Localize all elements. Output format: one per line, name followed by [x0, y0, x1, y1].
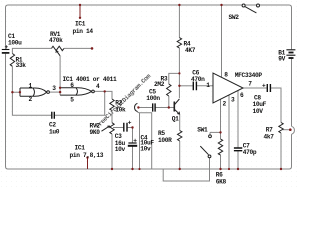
wire C3 to C4 node: [127, 127, 132, 129]
switch SW1 lever: [200, 146, 208, 155]
capacitor C5 100n plates: [153, 103, 155, 111]
wire R1 top lead to RV1: [12, 48, 51, 53]
transistor Q1 base bar: [173, 102, 175, 112]
svg-text:SW2: SW2: [229, 14, 240, 21]
svg-text:pin 7,8,13: pin 7,8,13: [70, 152, 104, 159]
wire right rail upper (to battery): [289, 5, 292, 49]
node rail R7: [280, 168, 282, 170]
transistor Q1 collector lead: [175, 99, 180, 105]
wire R7 tap to jack tip: [283, 129, 291, 131]
svg-text:4k7: 4k7: [264, 133, 275, 140]
wire op-amp pin7 output: [243, 87, 267, 89]
capacitor C6 470n plates: [193, 82, 196, 91]
wire C8 to R7: [271, 88, 281, 123]
node gate2 pin3: [59, 91, 61, 93]
svg-text:MFC3340P: MFC3340P: [235, 72, 263, 79]
wire op-amp pin3 down: [228, 95, 230, 169]
wire C5 to Q1 base: [156, 107, 175, 109]
wire jack sleeve to ground: [137, 111, 151, 169]
svg-text:R7: R7: [266, 126, 273, 133]
wire sleeve branch down: [139, 113, 141, 169]
svg-text:100n: 100n: [146, 95, 160, 102]
switch SW2 contacts: [242, 4, 245, 7]
node rail pin3: [228, 168, 230, 170]
svg-text:10v: 10v: [140, 146, 151, 153]
junction dots (maroon): [11, 4, 291, 170]
wire right rail mid (battery to jack bump): [291, 59, 293, 127]
node RV1 end: [91, 47, 94, 50]
battery B1 plates: [286, 49, 295, 51]
wire R4 line top: [178, 5, 180, 38]
svg-text:100R: 100R: [158, 137, 172, 144]
svg-text:9K0: 9K0: [90, 129, 101, 136]
switch SW2 lever: [245, 7, 257, 13]
node stub bottom: [86, 156, 88, 158]
wire Q1 emitter to R5: [179, 114, 181, 131]
wire R5 to rail: [179, 141, 181, 169]
watermark FreeCircuitDiagram.Com: [94, 72, 152, 129]
potentiometer RV1 470k: [52, 46, 64, 50]
svg-text:R6: R6: [216, 171, 223, 178]
wire R3 top to R4 line: [169, 73, 180, 84]
node C3/C4: [131, 126, 133, 128]
wire C4 node down: [132, 128, 134, 143]
svg-text:1u0: 1u0: [49, 128, 60, 135]
wire left rail upper: [6, 5, 9, 49]
node pin4/C2: [104, 90, 106, 92]
wire SW1 top stub: [209, 132, 211, 135]
capacitor C3 16u plates: [124, 123, 127, 132]
wire jack tip to C5: [138, 107, 152, 109]
resistor R6 6K8: [218, 139, 222, 155]
capacitor C8 10uF plates: [267, 84, 270, 92]
svg-text:10V: 10V: [253, 108, 264, 115]
svg-text:pin 14: pin 14: [73, 28, 94, 35]
wire C2 feedback left leg: [12, 92, 51, 115]
wire R6 to rail: [220, 155, 222, 169]
node pin14 top: [79, 4, 81, 6]
wire SW1 top to pin2 line: [210, 131, 221, 133]
svg-text:4K7: 4K7: [185, 47, 196, 54]
resistor R5 100R: [178, 131, 182, 142]
node rail pin8: [220, 4, 222, 6]
svg-text:Q1: Q1: [172, 116, 179, 123]
switch SW1 contacts: [209, 135, 212, 138]
wire RV2 tap to C3: [113, 127, 123, 129]
node R3/base: [168, 106, 170, 108]
left jack (probe input) arc: [135, 103, 138, 111]
wire RV1 right end: [64, 47, 92, 49]
resistor R1 33k: [10, 54, 14, 67]
wire bottom rail: [6, 167, 292, 170]
wire RV2 to bottom rail: [111, 134, 113, 169]
wire R4 to collector: [178, 48, 180, 98]
wire C2 to pin4 node: [55, 91, 105, 115]
node pin14 bottom: [79, 17, 81, 19]
Q1 emitter arrow: [177, 112, 180, 115]
wire R7 to rail: [280, 133, 282, 169]
svg-text:6K8: 6K8: [216, 178, 227, 185]
wires (gray): [6, 5, 295, 181]
node rail R6: [219, 168, 221, 170]
wire op-amp pin2 down: [220, 99, 222, 139]
svg-text:IC1: IC1: [75, 145, 86, 152]
svg-text:10v: 10v: [115, 146, 126, 153]
node rail RV2: [111, 168, 113, 170]
wire op-amp pin6 down: [237, 91, 239, 148]
maroon pin stubs: [80, 5, 88, 169]
capacitor C4 10uF plates: [128, 142, 136, 144]
op-amp U2 MFC3340P triangle: [213, 73, 243, 103]
svg-text:IC1: IC1: [75, 21, 86, 28]
capacitor C7 470p plates: [234, 148, 242, 151]
node SW1/pin2: [219, 131, 221, 133]
svg-text:33k: 33k: [16, 62, 27, 69]
wire R3 bottom to base node: [168, 96, 170, 108]
node gate1 input bar: [19, 91, 21, 93]
wire left rail lower: [5, 54, 7, 167]
node earphone tip: [289, 128, 292, 131]
capacitor plates (black): [2, 50, 296, 151]
svg-text:100u: 100u: [8, 40, 22, 47]
resistor R4 4K7: [177, 38, 181, 48]
node jack tip: [137, 106, 139, 108]
svg-text:SW1: SW1: [197, 126, 208, 133]
node rail C4: [131, 168, 133, 170]
wire collector node to C6: [179, 85, 192, 87]
stub IC1 pin 14: [79, 5, 81, 18]
node rail sleeve branch: [138, 168, 140, 170]
svg-text:10k: 10k: [115, 106, 126, 113]
wire op-amp pin8: [221, 5, 223, 77]
wire R2 to RV2: [111, 111, 113, 123]
RV1 wiper arrow: [56, 51, 60, 56]
svg-text:2M2: 2M2: [154, 81, 165, 88]
wire RV1 wiper down to gate2 input bar: [59, 56, 61, 95]
svg-text:R2: R2: [115, 99, 122, 106]
stub IC1 pin 7,8,13: [87, 158, 89, 169]
capacitor C1 100u plates: [2, 49, 10, 51]
wire C7 to rail: [237, 151, 239, 169]
potentiometer RV2 9K0: [110, 123, 114, 134]
component symbols (dark): [10, 4, 283, 158]
wire top rail: [8, 4, 289, 6]
svg-text:470p: 470p: [243, 149, 257, 156]
gate U1a (IC1 pins 1,2,3): [20, 88, 47, 96]
node gate2 pin6: [59, 87, 61, 89]
wire gate1 output to gate2 bar: [49, 91, 60, 93]
transistor Q1 emitter lead: [175, 110, 180, 115]
wire R1 bottom to gate1 input: [12, 67, 20, 93]
node rail R5: [179, 168, 181, 170]
node rail R4: [178, 4, 180, 6]
wire SW1 bottom detour: [163, 158, 209, 181]
capacitor C2 1u0 plates: [52, 112, 55, 119]
RV2 wiper arrow: [102, 126, 110, 131]
node R3/R4 top: [178, 72, 180, 74]
wire gate2 output to R2: [94, 91, 112, 99]
node rail C7: [237, 168, 239, 170]
svg-text:470k: 470k: [49, 37, 63, 44]
wire C6 to op-amp pin1: [197, 85, 213, 87]
wire right rail lower: [291, 134, 293, 166]
wire C4 bottom to rail: [132, 146, 134, 169]
resistor R3 2M2: [167, 84, 171, 96]
gate U1b (IC1 pins 5,6,4): [60, 88, 92, 95]
resistor R7 4k7: [279, 123, 283, 134]
svg-text:9V: 9V: [278, 56, 285, 63]
wire battery top lead: [291, 4, 293, 6]
svg-text:R5: R5: [158, 130, 165, 137]
node C6 tap: [178, 85, 180, 87]
earphone jack bump on right rail: [292, 126, 295, 134]
resistor R2 10k: [110, 99, 114, 111]
svg-text:470n: 470n: [191, 76, 205, 83]
node R1/gate1: [11, 91, 13, 93]
